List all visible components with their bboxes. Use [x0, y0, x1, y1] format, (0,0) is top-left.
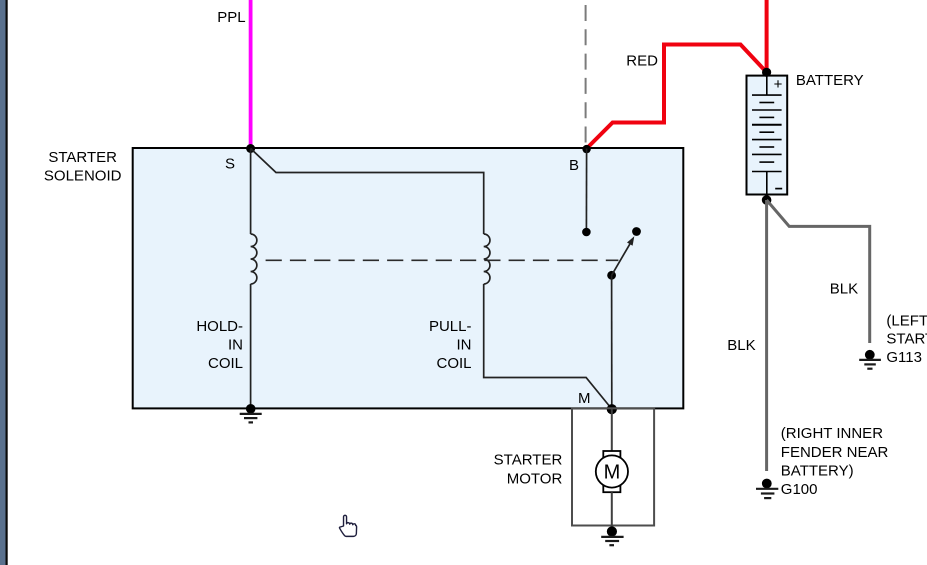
wire M node to motor [611, 409, 613, 451]
svg-text:SOLENOID: SOLENOID [44, 168, 122, 185]
wire PPL (magenta feed) [249, 0, 253, 149]
wire hold-in coil to ground [250, 284, 252, 408]
svg-text:FENDER NEAR: FENDER NEAR [781, 444, 889, 461]
mouse cursor [339, 515, 356, 536]
wire S node to pull-in coil [251, 149, 484, 235]
node S [246, 144, 255, 153]
svg-text:BATTERY): BATTERY) [781, 462, 854, 479]
motor brush block [603, 451, 620, 492]
svg-text:M: M [578, 390, 591, 407]
svg-text:BLK: BLK [830, 281, 858, 298]
dashed vertical line (ignition feed reference) [585, 0, 587, 148]
starter solenoid box [133, 148, 684, 408]
svg-text:PULL-: PULL- [429, 318, 472, 335]
svg-text:MOTOR: MOTOR [507, 470, 563, 487]
switch B contact [582, 228, 591, 237]
wire motor to ground [611, 492, 613, 531]
wire switch pivot to M node [611, 275, 613, 409]
switch fixed contact [632, 227, 641, 236]
node B [582, 145, 590, 153]
svg-text:STARTER): STARTER) [886, 331, 927, 348]
svg-text:G100: G100 [781, 481, 818, 498]
wire BLK right (battery negative to G113) [767, 200, 870, 343]
svg-text:G113: G113 [886, 349, 922, 366]
svg-text:S: S [225, 156, 235, 173]
svg-text:+: + [774, 76, 783, 93]
svg-text:BLK: BLK [727, 337, 755, 354]
ground G113 [865, 350, 875, 360]
starter motor box [572, 408, 654, 525]
svg-text:HOLD-: HOLD- [196, 318, 243, 335]
wire BLK left (battery negative to G100) [765, 200, 768, 471]
svg-text:(RIGHT INNER: (RIGHT INNER [781, 425, 883, 442]
battery top stub [766, 76, 768, 96]
svg-text:COIL: COIL [436, 355, 471, 372]
svg-text:B: B [569, 157, 579, 174]
ground at solenoid hold-in coil [246, 404, 256, 414]
svg-text:RED: RED [626, 52, 658, 69]
svg-text:BATTERY: BATTERY [796, 72, 864, 89]
wire S down to hold-in coil [250, 149, 252, 235]
svg-text:PPL: PPL [217, 9, 245, 26]
ground below starter motor [601, 536, 623, 538]
battery bottom stub [766, 172, 768, 195]
battery [747, 76, 788, 195]
left window edge bar [0, 0, 6, 565]
battery negative node [762, 195, 772, 205]
battery plates [752, 94, 782, 96]
dashed mechanical linkage line [266, 259, 619, 261]
svg-text:M: M [604, 461, 621, 483]
ground G100 [762, 479, 772, 489]
switch blade [612, 244, 630, 275]
wire RED from B terminal to battery positive [587, 45, 767, 149]
switch pivot node [607, 271, 616, 280]
red supply wire from top [765, 0, 769, 72]
svg-text:IN: IN [457, 337, 472, 354]
svg-text:COIL: COIL [208, 355, 243, 372]
battery positive node [762, 68, 771, 77]
battery minus sign [775, 188, 782, 190]
motor circle [596, 455, 628, 487]
wire B terminal to switch contact [585, 149, 587, 233]
node M [607, 404, 617, 414]
hold-in coil [251, 234, 257, 284]
svg-text:STARTER: STARTER [494, 451, 563, 468]
svg-text:STARTER: STARTER [48, 149, 117, 166]
motor ground node [607, 526, 617, 536]
switch blade arrowhead [627, 236, 634, 245]
wire pull-in coil to M node [484, 284, 612, 409]
svg-text:(LEFT SIDE: (LEFT SIDE [886, 312, 927, 329]
svg-text:IN: IN [228, 337, 243, 354]
pull-in coil [484, 234, 490, 284]
